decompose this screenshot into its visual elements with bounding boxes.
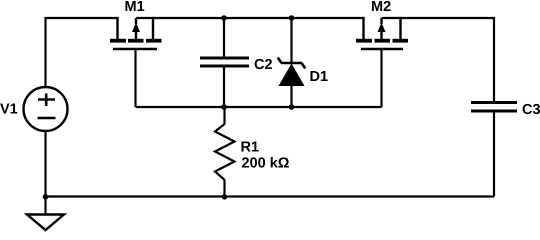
voltage source V1 [24, 87, 68, 131]
wire: V1 top lead and top-left rail to M1 drain [46, 18, 118, 87]
node: top rail / D1 junction [289, 15, 295, 21]
label R1 [241, 142, 258, 152]
wire: ground stub [44, 196, 46, 215]
wire: C2 bottom lead [223, 68, 225, 108]
zener diode D1 [278, 58, 305, 86]
wire: R1 top lead [223, 107, 225, 125]
label C3 [523, 104, 540, 114]
capacitor C2 [200, 58, 249, 66]
ground [27, 215, 64, 231]
wire: D1 bottom lead [290, 85, 292, 107]
wire: C2 top lead [223, 18, 225, 57]
wire: M2 gate lead down to mid rail [380, 49, 382, 107]
wire: C3 bottom lead [493, 112, 495, 197]
label R1 value 200 kOhm [242, 157, 289, 168]
wire: V1 bottom lead [44, 131, 46, 197]
node: mid rail / D1 junction [289, 104, 295, 110]
wire: M1 gate lead down to mid rail [134, 49, 136, 107]
label M2 [372, 1, 391, 11]
label D1 [310, 71, 327, 81]
wire: R1 bottom lead [223, 180, 225, 197]
node: top rail / C2 junction [221, 15, 227, 21]
resistor R1 [215, 124, 235, 180]
label V1 [0, 104, 17, 114]
wire: bottom rail [46, 195, 495, 197]
node: mid rail / C2-R1 junction [221, 104, 227, 110]
label C2 [255, 59, 272, 69]
wire: top rail from M1 source to M2 drain [136, 17, 364, 19]
node: bottom rail / R1 junction [222, 194, 228, 200]
label M1 [125, 1, 144, 11]
wire: top rail from M2 source to C3 [382, 18, 495, 101]
wire: D1 top lead [290, 18, 292, 63]
node: bottom rail / V1-ground junction [43, 194, 49, 200]
wire: mid rail from M1 gate to M2 gate [136, 106, 382, 108]
mosfet M1 [110, 17, 162, 49]
capacitor C3 [471, 103, 517, 112]
mosfet M2 [356, 17, 408, 49]
